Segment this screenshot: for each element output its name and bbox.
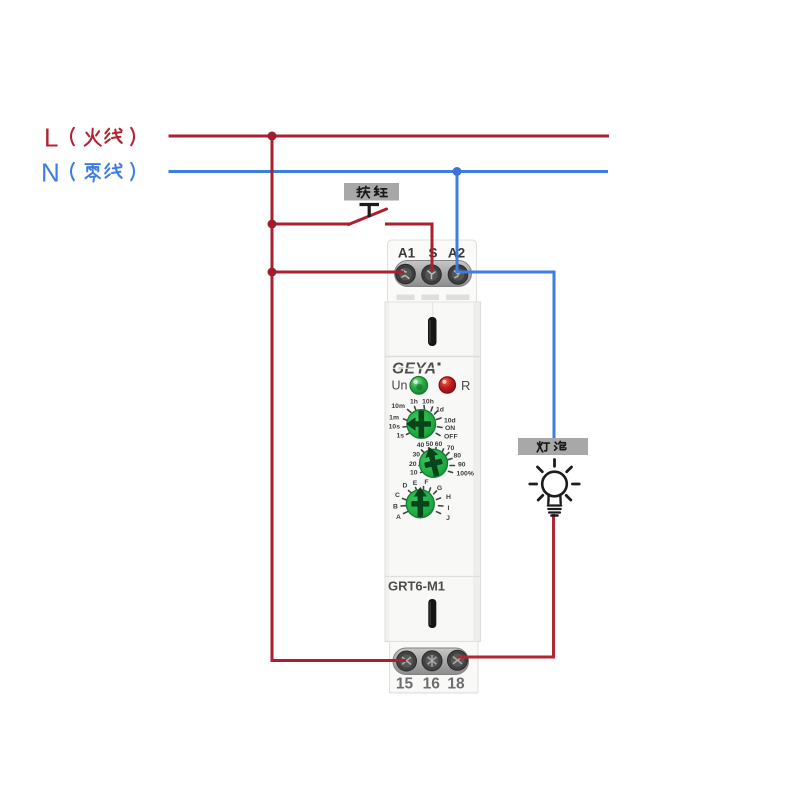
svg-text:1h: 1h — [410, 399, 418, 406]
svg-text:18: 18 — [447, 676, 465, 693]
bottom terminal housing — [390, 642, 479, 693]
screw terminal A2 — [448, 265, 468, 285]
svg-text:GRT6-M1: GRT6-M1 — [388, 579, 445, 594]
wire N (neutral) horizontal — [169, 170, 609, 173]
wire L (live) horizontal — [169, 135, 610, 138]
node: A1 branch junction — [268, 268, 277, 277]
svg-text:E: E — [413, 480, 418, 487]
wire: branch to terminal A1 — [272, 271, 404, 274]
GEYA logo — [392, 361, 441, 378]
knob2 scale labels (percentage) — [409, 441, 474, 478]
svg-text:B: B — [393, 504, 398, 511]
label box: lamp (dengpao) — [518, 438, 588, 455]
svg-text:10s: 10s — [389, 424, 401, 431]
label: L (live wire) — [44, 123, 134, 153]
body seam above latch — [432, 303, 434, 317]
screw terminal 15 — [397, 651, 417, 671]
label: N (neutral wire) — [41, 158, 134, 188]
LED R (red) — [439, 377, 455, 393]
top terminal recess — [395, 261, 472, 287]
wire: lamp return to terminal 18 — [458, 514, 556, 659]
label box: push button (anniu) — [344, 183, 399, 201]
svg-text:16: 16 — [423, 676, 441, 693]
svg-text:1d: 1d — [436, 407, 444, 414]
device bottom shadow — [390, 692, 478, 694]
screw terminal 16 — [422, 651, 442, 671]
svg-text:OFF: OFF — [444, 434, 458, 441]
svg-text:R: R — [461, 378, 470, 393]
svg-text:10: 10 — [410, 469, 418, 476]
svg-text:J: J — [446, 515, 450, 522]
svg-text:10m: 10m — [391, 403, 405, 410]
svg-text:10d: 10d — [444, 418, 456, 425]
wire: push button to S terminal — [385, 223, 434, 272]
svg-text:30: 30 — [412, 451, 420, 458]
lamp screw base — [548, 504, 561, 506]
svg-text:50: 50 — [426, 441, 434, 448]
node: N junction — [453, 167, 462, 176]
svg-text:ON: ON — [445, 425, 455, 432]
lower latch slot — [428, 599, 436, 628]
svg-text:70: 70 — [447, 445, 455, 452]
LED Un (green) — [410, 377, 428, 395]
lamp bulb glass — [542, 472, 567, 497]
upper latch slot — [428, 317, 437, 346]
svg-text:A: A — [396, 514, 401, 521]
vent slots top — [397, 295, 415, 301]
screw terminal A1 — [396, 264, 416, 284]
node: L junction — [268, 132, 277, 141]
body bottom edge — [386, 641, 480, 643]
svg-text:D: D — [403, 483, 408, 490]
knob3 scale labels (function A-J) — [393, 479, 451, 522]
wire: feed to push button — [272, 223, 349, 226]
knob1 tick marks — [403, 406, 442, 436]
push button S1: actuator T symbol — [360, 205, 380, 218]
front panel groove — [386, 356, 481, 358]
svg-text:15: 15 — [396, 676, 414, 693]
wire: A2 to lamp (blue) — [458, 271, 556, 439]
svg-text:40: 40 — [417, 442, 425, 449]
bottom terminal recess — [393, 648, 469, 675]
svg-text:C: C — [395, 492, 400, 499]
lamp rays — [530, 460, 579, 501]
svg-text:N: N — [41, 158, 60, 188]
svg-text:1m: 1m — [389, 415, 399, 422]
lower panel groove — [386, 576, 481, 578]
screw terminal 18 — [448, 650, 468, 670]
node: button branch junction — [268, 220, 277, 229]
svg-text:I: I — [448, 505, 450, 512]
wire: bottom run to terminal 15 — [271, 659, 407, 662]
svg-text:G: G — [437, 485, 442, 492]
push button S1: blade — [349, 209, 387, 225]
svg-text:20: 20 — [409, 461, 417, 468]
screw terminal S — [422, 265, 442, 285]
wire: L drop, left vertical bus — [271, 135, 274, 663]
svg-text:100%: 100% — [457, 470, 474, 477]
knob2 tick marks — [419, 448, 455, 473]
svg-text:10h: 10h — [422, 399, 434, 406]
svg-text:Un: Un — [392, 379, 408, 393]
svg-text:1s: 1s — [396, 433, 404, 440]
wire: N drop to terminal A2 — [456, 172, 459, 274]
knob1 scale labels (time range) — [389, 399, 458, 441]
lamp LP1 icon — [530, 460, 579, 516]
svg-text:GEYA: GEYA — [392, 361, 436, 378]
svg-text:F: F — [424, 479, 428, 486]
svg-text:H: H — [446, 494, 451, 501]
svg-text:L: L — [44, 123, 58, 153]
svg-text:90: 90 — [458, 461, 466, 468]
knob2 (percentage selector, arrow up, slightly rotated) — [416, 444, 451, 481]
knob1 (time range selector, arrow left) — [406, 410, 436, 439]
svg-text:80: 80 — [454, 452, 462, 459]
relay top terminal housing — [388, 240, 477, 302]
knob3 tick marks — [401, 487, 443, 514]
relay main body — [385, 302, 481, 642]
svg-text:A1: A1 — [398, 246, 416, 261]
knob3 (function selector, arrow up) — [406, 487, 434, 518]
